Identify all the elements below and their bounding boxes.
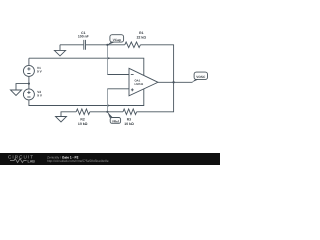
svg-text:R3: R3 — [127, 118, 131, 122]
svg-text:LAB: LAB — [28, 159, 36, 163]
svg-text:VOSC: VOSC — [196, 75, 206, 79]
svg-text:100 nF: 100 nF — [78, 35, 89, 39]
svg-text:http://circuitlab.com/c/me575e: http://circuitlab.com/c/me575e58o5ba4bc8… — [47, 159, 109, 163]
svg-text:10 kΩ: 10 kΩ — [78, 122, 88, 126]
svg-text:VCap: VCap — [113, 38, 121, 42]
svg-text:LM741: LM741 — [135, 82, 144, 86]
svg-text:VRef: VRef — [112, 119, 120, 123]
svg-text:R2: R2 — [80, 118, 84, 122]
svg-text:22 kΩ: 22 kΩ — [137, 35, 147, 39]
svg-text:10 kΩ: 10 kΩ — [124, 122, 134, 126]
